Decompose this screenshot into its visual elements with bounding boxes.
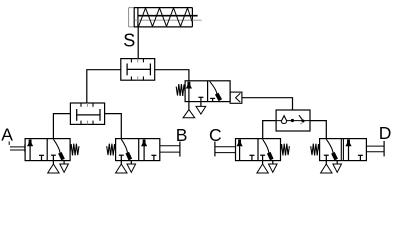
valve V5 flow arrow 1-2 [188,87,190,101]
valve B exhaust triangle [130,161,132,164]
valve V5 blocked port 3 [200,97,202,101]
shuttle valve SV1 seat stubs [130,59,132,63]
svg-text:A: A [1,124,13,144]
valve B position divider [138,139,140,161]
cylinder return spring [139,8,193,27]
wire V6 right to valve D top [310,121,326,139]
two-pressure valve V6 right ball [302,120,305,123]
two-pressure valve V6 body [276,110,310,131]
shuttle valve SV2 gray port stubs [87,103,89,107]
valve B blocked port 1 [120,155,122,160]
valve A position divider [46,139,48,161]
valve B blocked port 3 (actuated box) [153,155,155,160]
cylinder piston [133,8,135,27]
valve A return spring [70,144,79,156]
valve C exhaust triangle [272,161,274,164]
valve B flow arrow 1-2 [143,145,145,160]
wire SV2 right to valve B top [105,114,122,139]
valve V5 piloted-position flow path 2-3 [210,81,217,94]
valve D blocked port 1 [325,155,327,160]
valve V5 pilot actuator box [230,92,242,103]
valve V5 return spring [176,84,185,96]
valve D position divider [340,139,342,161]
valve C position divider [257,139,259,161]
cylinder rear gray cap [129,8,134,27]
svg-text:C: C [209,125,222,145]
valve V5 piloted-position blocked port 1 [212,98,214,101]
valve D pushbutton [366,145,384,147]
valve C blocked port 1 [262,155,264,160]
shuttle valve SV2 seat stubs [80,103,82,107]
cylinder gray stroke ruler [135,19,202,21]
valve B pushbutton [160,145,180,147]
valve D return spring [311,144,320,156]
valve D flow arrow 1-2 [348,145,350,160]
two-pressure valve V6 right tick [300,122,302,125]
valve C return spring [281,144,290,156]
valve A rest flow path 2-3 [53,139,60,153]
valve C pushbutton [215,146,235,148]
valve B return spring [107,144,116,156]
two-pressure valve V6 spool dot [291,119,294,122]
wire SV2 left to valve A top [53,114,70,139]
svg-text:B: B [176,125,188,145]
valve A supply source triangle [52,161,54,164]
shuttle valve SV2 body [70,103,104,124]
valve V5 exhaust triangle [200,102,202,107]
valve A blocked port 1 [52,155,54,160]
valve D body (3/2-way NC, pushbutton, spring return) [320,139,367,161]
wire cylinder to shuttle SV1 [137,27,139,59]
valve B rest flow path 2-3 [121,139,127,153]
valve D rest flow path 2-3 [326,139,333,153]
two-pressure valve V6 internal channel [276,120,310,122]
shuttle valve SV1 gray port stubs [137,59,139,63]
valve D blocked port 3 (actuated box) [359,155,361,160]
wire SV1 right to valve V5 top [155,70,189,81]
valve D exhaust triangle [336,161,338,164]
svg-text:D: D [379,123,392,143]
valve C body (3/2-way NC, pushbutton, spring return) [236,139,281,161]
shuttle valve SV1 body [121,59,155,81]
cylinder piston rod [138,15,197,17]
wire V6 left to valve C top [263,121,276,139]
valve V5 pilot arrow [236,93,241,102]
valve D supply source triangle [325,161,327,164]
valve A pushbutton [10,146,25,148]
valve V5 body (3/2-way, normally open, pilot operated) [185,81,230,102]
valve V5 supply source triangle [188,102,190,110]
valve C rest flow path 2-3 [263,139,269,153]
valve V5 position divider [207,81,209,102]
wire SV1 left to SV2 top [87,70,121,103]
valve C flow arrow 1-2 [239,145,241,160]
valve C blocked port 3 (actuated box) [251,155,253,160]
valve B body (3/2-way NC, pushbutton, spring return) [116,139,160,161]
valve C supply source triangle [262,161,264,164]
svg-text:S: S [123,30,135,50]
cylinder body (single-acting, spring return) [134,8,192,27]
valve A blocked port 3 (actuated box) [41,155,43,160]
wire V5 pilot to AND valve V6 top [242,98,293,110]
valve B supply source triangle [120,161,122,164]
valve A exhaust triangle [63,161,65,164]
two-pressure valve V6 right flapper [299,115,303,121]
shuttle valve SV1 piston [126,64,128,76]
valve A body (3/2-way NC, pushbutton, spring return) [25,139,70,161]
two-pressure valve V6 left seat with ball [281,121,286,123]
shuttle valve SV2 piston [76,109,78,121]
valve A flow arrow 1-2 [29,145,31,160]
